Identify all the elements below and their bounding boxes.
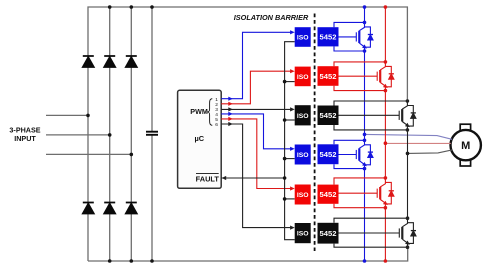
wire PWM pin3 to ISO3 (black) bbox=[221, 108, 291, 110]
wire rectifier leg 2 bbox=[109, 7, 111, 261]
transistor Q4 IGBT (blue) bbox=[356, 140, 364, 168]
isolator ISO1 (blue) bbox=[295, 27, 311, 47]
svg-text:ISO: ISO bbox=[297, 231, 309, 238]
wire PWM pin6 to ISO6 (black) bbox=[221, 124, 291, 228]
svg-text:6: 6 bbox=[215, 122, 218, 128]
gate driver 5452 U2 (blue) bbox=[318, 27, 339, 46]
diode freewheel Q3 bbox=[407, 106, 416, 127]
node collector row 1 bbox=[363, 21, 367, 25]
wire bus stub to ISO2 bbox=[285, 81, 295, 83]
wire phase A lower (Q4 emitter to bottom rail) bbox=[364, 169, 366, 261]
isolator ISO3 (black) bbox=[295, 105, 311, 125]
wire phase A mid (Q1 emitter to Q4 collector) bbox=[364, 51, 366, 140]
node bus junction ISO4 bbox=[283, 157, 287, 161]
svg-text:INPUT: INPUT bbox=[14, 134, 36, 143]
wire motor phase B (red) bbox=[385, 142, 450, 144]
wire phase input C bbox=[46, 153, 131, 155]
node motor tap A bbox=[363, 133, 367, 137]
gate driver 5452 U3 (red) bbox=[318, 66, 339, 86]
arrow FAULT into uC bbox=[222, 176, 227, 180]
wire fault common bus bbox=[285, 42, 295, 240]
wire 5452 U5 VEE loop to emitter node bbox=[334, 164, 365, 168]
emitter arrow Q3 bbox=[405, 123, 411, 129]
diode freewheel Q4 bbox=[365, 145, 374, 165]
wire phase A upper (blue, top rail to Q1) bbox=[364, 7, 366, 22]
node phase B at top rail bbox=[384, 5, 388, 9]
diode freewheel Q6 bbox=[408, 223, 417, 244]
node input B tap bbox=[108, 133, 112, 137]
svg-text:5452: 5452 bbox=[320, 190, 337, 199]
wire phase B mid (Q2 emitter to Q5 collector) bbox=[384, 91, 386, 178]
isolator ISO6 (black) bbox=[295, 223, 311, 243]
node bus junction ISO5 bbox=[283, 197, 287, 201]
node emitter row 3 bbox=[406, 128, 410, 132]
svg-text:5452: 5452 bbox=[320, 33, 337, 42]
svg-text:ISO: ISO bbox=[297, 74, 309, 81]
microcontroller U1 bbox=[178, 90, 222, 188]
wire 5452 U2 VEE loop to emitter node bbox=[334, 46, 365, 51]
svg-text:M: M bbox=[461, 140, 470, 152]
wire PWM pin5 to ISO5 (red) bbox=[221, 119, 291, 189]
node motor tap B bbox=[384, 141, 388, 145]
node emitter row 1 bbox=[363, 49, 367, 53]
motor M1 bbox=[451, 124, 481, 166]
svg-text:µC: µC bbox=[195, 134, 205, 143]
node bottom rail J6 bbox=[150, 259, 154, 263]
wire phase B upper (red, top rail to Q2) bbox=[384, 7, 386, 62]
diode D1 bbox=[83, 56, 94, 67]
wire 5452 U5 VCC loop to collector node bbox=[334, 140, 365, 144]
diode D4 bbox=[83, 203, 94, 214]
wire PWM pin2 to ISO2 (red) bbox=[221, 71, 291, 104]
svg-text:5452: 5452 bbox=[320, 72, 337, 81]
isolation barrier dashed line bbox=[314, 14, 316, 252]
node collector row 6 bbox=[406, 216, 410, 220]
capacitor C1 bbox=[146, 132, 158, 135]
node phase A at bottom rail bbox=[363, 259, 367, 263]
svg-text:4: 4 bbox=[215, 112, 218, 118]
node top rail J2 bbox=[130, 5, 134, 9]
wire phase input A bbox=[46, 114, 88, 116]
diode D5 bbox=[104, 203, 115, 214]
gate driver 5452 U5 (blue) bbox=[318, 144, 339, 164]
diode D3 bbox=[126, 56, 137, 67]
emitter arrow Q2 bbox=[383, 84, 389, 90]
node phase A at top rail bbox=[363, 5, 367, 9]
node bus junction ISO3 bbox=[283, 118, 287, 122]
wire motor phase C (black) bbox=[408, 150, 453, 154]
emitter arrow Q6 bbox=[405, 241, 411, 247]
isolator ISO2 (red) bbox=[295, 67, 311, 87]
node bottom rail J5 bbox=[130, 259, 134, 263]
node input C tap bbox=[130, 153, 134, 157]
transistor Q5 IGBT (red) bbox=[377, 178, 385, 208]
node motor tap C bbox=[406, 152, 410, 156]
isolator ISO4 (blue) bbox=[295, 145, 311, 165]
transistor Q1 IGBT (blue) bbox=[356, 22, 364, 51]
svg-text:ISOLATION BARRIER: ISOLATION BARRIER bbox=[234, 13, 309, 22]
node top rail J1 bbox=[108, 5, 112, 9]
node collector row 5 bbox=[384, 176, 388, 180]
diode freewheel Q2 bbox=[385, 66, 394, 86]
svg-text:ISO: ISO bbox=[297, 152, 309, 159]
wire PWM pin4 to ISO4 (blue) bbox=[221, 114, 291, 149]
node input A tap bbox=[86, 114, 90, 118]
gate driver 5452 U6 (red) bbox=[318, 185, 339, 204]
transistor Q3 IGBT (black) bbox=[399, 101, 407, 130]
wire 5452 U4 VCC loop to collector node bbox=[334, 101, 407, 106]
label 3-PHASE INPUT bbox=[9, 126, 40, 143]
pin numbers 1-6 bbox=[215, 97, 218, 128]
gate driver 5452 U4 (black) bbox=[318, 106, 339, 126]
wire gate drive row 4 bbox=[339, 154, 357, 156]
wire gate drive row 1 bbox=[339, 36, 357, 38]
node collector row 3 bbox=[406, 99, 410, 103]
wire 5452 U6 VCC loop to collector node bbox=[334, 178, 385, 185]
svg-text:ISO: ISO bbox=[297, 192, 309, 199]
wire 5452 U4 VEE loop to emitter node bbox=[334, 125, 407, 130]
svg-text:PWM: PWM bbox=[190, 107, 208, 116]
svg-text:5452: 5452 bbox=[320, 229, 337, 238]
wire 5452 U6 VEE loop to emitter node bbox=[334, 204, 385, 208]
wire FAULT line to uC bbox=[221, 177, 284, 179]
node collector row 2 bbox=[384, 60, 388, 64]
node bus junction ISO2 bbox=[283, 80, 287, 84]
node bus junction FAULT bbox=[283, 176, 287, 180]
node bottom rail J4 bbox=[108, 259, 112, 263]
wire gate drive row 5 bbox=[339, 192, 378, 194]
wire 5452 U3 VEE loop to emitter node bbox=[334, 86, 385, 91]
wire phase B lower (Q5 emitter to bottom rail) bbox=[384, 208, 386, 261]
node emitter row 6 bbox=[406, 245, 410, 249]
svg-text:2: 2 bbox=[215, 102, 218, 108]
svg-text:ISO: ISO bbox=[297, 113, 309, 120]
wire motor phase A (blue) bbox=[365, 134, 453, 139]
emitter arrow Q4 bbox=[362, 162, 368, 168]
diode freewheel Q5 bbox=[385, 182, 394, 204]
node collector row 4 bbox=[363, 139, 367, 143]
wire bus stub to ISO5 bbox=[285, 198, 295, 200]
diode D6 bbox=[126, 203, 137, 214]
wire 5452 U3 VCC loop to collector node bbox=[334, 62, 385, 66]
svg-text:5452: 5452 bbox=[320, 150, 337, 159]
gate driver 5452 U7 (black) bbox=[318, 223, 339, 244]
wire phase C mid (Q3 emitter to Q6 collector) bbox=[407, 130, 409, 218]
transistor Q6 IGBT (black) bbox=[399, 218, 407, 247]
wire gate drive row 3 bbox=[339, 114, 400, 116]
node top rail J3 bbox=[150, 5, 154, 9]
diode D2 bbox=[104, 56, 115, 67]
node phase B at bottom rail bbox=[384, 259, 388, 263]
emitter arrow Q1 bbox=[362, 44, 368, 50]
isolator ISO5 (red) bbox=[295, 185, 311, 205]
wire DC link leg bbox=[151, 7, 153, 261]
svg-text:5452: 5452 bbox=[320, 111, 337, 120]
transistor Q2 IGBT (red) bbox=[377, 62, 385, 91]
node emitter row 4 bbox=[363, 167, 367, 171]
wire DC+ top rail bbox=[88, 7, 407, 261]
brace PWM pins bbox=[208, 99, 213, 126]
wire 5452 U7 VCC loop to collector node bbox=[334, 218, 408, 223]
wire 5452 U2 VCC loop to collector node bbox=[334, 22, 365, 27]
wire DC- bottom rail bbox=[88, 247, 408, 261]
diode freewheel Q1 bbox=[365, 27, 374, 47]
wire bus stub to ISO3 bbox=[285, 119, 295, 121]
wire gate drive row 6 bbox=[339, 232, 400, 234]
wire gate drive row 2 bbox=[339, 75, 378, 77]
wire rectifier leg 3 bbox=[130, 7, 132, 261]
wire phase input B bbox=[46, 134, 110, 136]
emitter arrow Q5 bbox=[383, 201, 389, 207]
wire PWM pin1 to ISO1 (blue) bbox=[221, 32, 291, 98]
wire bus stub to ISO4 bbox=[285, 158, 295, 160]
wire 5452 U7 VEE loop to emitter node bbox=[334, 244, 408, 248]
node emitter row 2 bbox=[384, 89, 388, 93]
node emitter row 5 bbox=[384, 206, 388, 210]
svg-text:ISO: ISO bbox=[297, 35, 309, 42]
svg-text:FAULT: FAULT bbox=[196, 175, 220, 184]
